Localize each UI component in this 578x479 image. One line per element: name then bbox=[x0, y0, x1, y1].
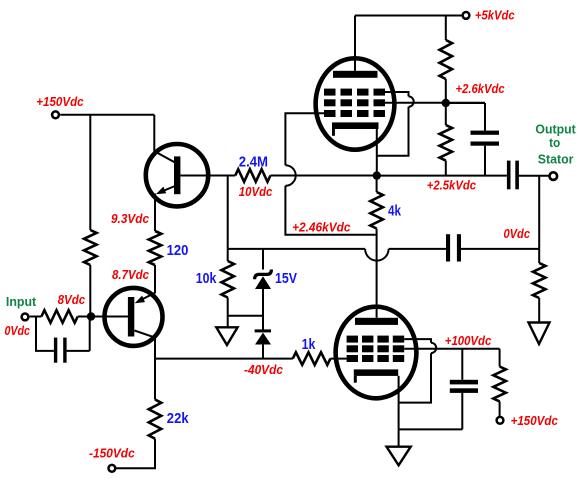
resistor plate-load lower bbox=[440, 125, 453, 161]
zener D1 15V bbox=[255, 270, 272, 290]
wire Q2 base lead bbox=[91, 316, 128, 318]
wire bypass cap top lead bbox=[461, 349, 463, 380]
resistor input bbox=[41, 310, 77, 323]
wire 0V line mid bbox=[389, 248, 446, 250]
wire hop under plate feed bbox=[365, 249, 389, 261]
capacitor C-0V bbox=[446, 234, 450, 261]
wire resistor to terminal bbox=[499, 401, 501, 416]
terminal output bbox=[550, 172, 558, 180]
resistor 120 bbox=[149, 231, 162, 265]
svg-text:4k: 4k bbox=[388, 203, 402, 220]
svg-text:120: 120 bbox=[167, 242, 189, 259]
wire Q1 collector drop bbox=[153, 115, 155, 152]
capacitor C-input bbox=[54, 338, 57, 363]
wire Q1 emitter to 120 bbox=[154, 194, 156, 232]
svg-text:8.7Vdc: 8.7Vdc bbox=[112, 268, 149, 282]
wire output lead bbox=[519, 175, 549, 177]
svg-text:9.3Vdc: 9.3Vdc bbox=[111, 212, 149, 226]
ground output shunt bbox=[529, 323, 550, 345]
tube V2 envelope bbox=[336, 307, 417, 399]
wire input cap branch bbox=[36, 317, 54, 351]
tube V2 cathode bbox=[354, 369, 398, 376]
wire V1 cathode lead bbox=[376, 129, 378, 176]
wire cap C2 bottom bbox=[484, 146, 486, 176]
wire 10k top bbox=[227, 249, 229, 261]
resistor 22k bbox=[149, 400, 162, 439]
resistor R-bias bbox=[84, 230, 97, 265]
transistor Q2 bbox=[105, 288, 163, 346]
wire diode to -40V line bbox=[262, 344, 264, 359]
wire V2 g3 bracket bbox=[404, 339, 431, 343]
resistor 10k bbox=[221, 261, 234, 298]
wire to +2.6kV node bbox=[445, 79, 447, 103]
resistor 2.4M bbox=[235, 169, 270, 182]
wire +100V resistor top bbox=[499, 349, 501, 367]
svg-text:+100Vdc: +100Vdc bbox=[445, 334, 492, 348]
wire 22k to terminal bbox=[116, 439, 155, 469]
wire V2 cathode lead bbox=[398, 376, 400, 447]
svg-text:15V: 15V bbox=[275, 270, 297, 287]
tube V1 plate bbox=[333, 71, 378, 78]
wire shunt to ground bbox=[538, 249, 540, 323]
wire 2.4M to node bbox=[270, 175, 376, 177]
svg-text:to: to bbox=[549, 135, 560, 150]
resistor plate-load upper bbox=[440, 40, 453, 79]
tube V1 grids bbox=[324, 89, 336, 96]
capacitor C-bypass bbox=[450, 380, 478, 385]
svg-text:0Vdc: 0Vdc bbox=[504, 227, 531, 241]
svg-text:+150Vdc: +150Vdc bbox=[36, 95, 83, 109]
resistor 1k bbox=[293, 352, 331, 365]
wire V1 plate lead bbox=[354, 16, 356, 71]
wire V1 g3 bracket bbox=[385, 92, 409, 96]
wire shunt drop bbox=[538, 176, 540, 249]
terminal +5kVdc bbox=[463, 12, 470, 19]
wire V1 g2 lead bbox=[385, 102, 485, 104]
wire Q1 base drop bbox=[227, 176, 229, 249]
wire Q1 base lead bbox=[180, 175, 235, 177]
wire 0V line left bbox=[228, 248, 365, 250]
wire +5kV rail bbox=[355, 15, 462, 17]
ground V2 cathode bbox=[387, 447, 411, 466]
wire -40V line bbox=[155, 358, 293, 360]
wire input cap to node bbox=[67, 317, 90, 351]
capacitor C-screen bbox=[471, 131, 500, 135]
wire V2 g3 to cathode bbox=[399, 353, 431, 403]
terminal +150Vdc bbox=[52, 111, 59, 118]
svg-text:10k: 10k bbox=[196, 270, 217, 287]
terminal -150Vdc bbox=[109, 465, 116, 472]
resistor 4k bbox=[370, 192, 383, 229]
svg-text:-150Vdc: -150Vdc bbox=[89, 446, 135, 460]
wire top resistor lead bbox=[445, 16, 447, 41]
svg-text:-40Vdc: -40Vdc bbox=[244, 363, 283, 377]
tube V1 cathode bbox=[332, 122, 379, 129]
svg-text:1k: 1k bbox=[302, 336, 316, 353]
wire input R to node bbox=[78, 316, 91, 318]
svg-text:+2.6kVdc: +2.6kVdc bbox=[456, 82, 505, 96]
tube V2 grids bbox=[347, 336, 358, 343]
wire 1k to V2 grid bbox=[330, 358, 346, 360]
svg-text:2.4M: 2.4M bbox=[239, 154, 268, 171]
wire +150V rail bbox=[60, 114, 154, 116]
diode D2 bbox=[255, 329, 271, 344]
wire V1 g3 to cathode bbox=[377, 107, 409, 156]
resistor cathode-feed bbox=[493, 367, 506, 402]
wire bias resistor top bbox=[89, 115, 91, 230]
tube V2 plate bbox=[355, 318, 398, 325]
wire hop over 2.4M line bbox=[285, 165, 295, 186]
transistor Q1 bbox=[146, 144, 208, 206]
svg-text:0Vdc: 0Vdc bbox=[5, 324, 31, 338]
node +2.5kVdc bbox=[373, 171, 381, 179]
wire input lead bbox=[30, 316, 42, 318]
ground 10k bbox=[216, 327, 237, 345]
wire Q2 collector drop bbox=[154, 337, 156, 400]
resistor output shunt bbox=[533, 263, 546, 298]
svg-text:Input: Input bbox=[6, 294, 37, 309]
tube V1 envelope bbox=[316, 58, 395, 149]
svg-text:22k: 22k bbox=[167, 410, 189, 427]
svg-text:Stator: Stator bbox=[538, 152, 574, 167]
wire bias resistor bottom bbox=[89, 265, 91, 317]
terminal input bbox=[22, 314, 29, 321]
wire +100V line bbox=[404, 348, 499, 350]
wire grid1 drop lower bbox=[285, 186, 376, 235]
svg-text:+5kVdc: +5kVdc bbox=[475, 9, 515, 23]
wire zener top bbox=[262, 249, 264, 270]
wire bypass cap bottom bbox=[399, 393, 463, 430]
svg-text:+2.46kVdc: +2.46kVdc bbox=[292, 220, 350, 234]
svg-text:8Vdc: 8Vdc bbox=[58, 293, 86, 307]
node input bbox=[87, 312, 95, 320]
wire mid resistor bottom bbox=[445, 161, 447, 176]
wire 120 to Q2 emitter bbox=[154, 265, 156, 293]
wire 0V line right bbox=[461, 248, 539, 250]
capacitor C-output bbox=[507, 161, 511, 190]
wire V1 grid1 lead bbox=[285, 113, 324, 165]
svg-text:10Vdc: 10Vdc bbox=[239, 185, 273, 199]
wire 10k bottom bbox=[228, 298, 263, 328]
wire node to cap C2 bbox=[446, 103, 485, 131]
wire hop over V2 g2 lead bbox=[431, 343, 436, 353]
wire mid resistor top bbox=[445, 103, 447, 125]
wire 4k to V2 plate bbox=[376, 229, 378, 318]
wire 4k top bbox=[376, 176, 378, 192]
svg-text:+150Vdc: +150Vdc bbox=[511, 414, 558, 428]
svg-text:+2.5kVdc: +2.5kVdc bbox=[427, 178, 476, 192]
terminal +150Vdc bottom bbox=[497, 417, 504, 424]
wire zener to diode bbox=[262, 289, 264, 331]
wire +2.5kV line bbox=[377, 175, 507, 177]
wire hop over g2 lead bbox=[409, 96, 414, 106]
node +2.6kVdc bbox=[442, 99, 450, 107]
